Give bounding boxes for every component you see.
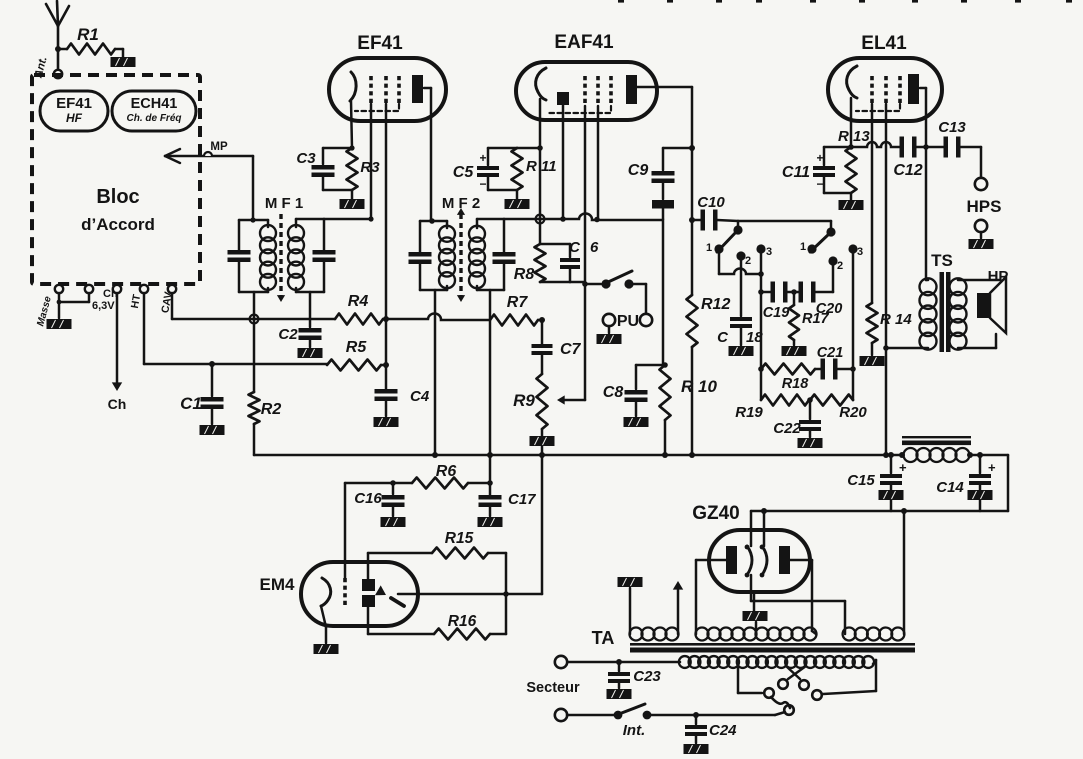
ground below C23: [607, 689, 632, 699]
tube EF41 (HF) inside bloc: [40, 91, 108, 131]
svg-text:R 11: R 11: [526, 158, 557, 175]
TS primary coil: [920, 278, 937, 349]
wire EAF41 g1 to PU switch and R9 wiper: [582, 106, 601, 400]
mains transformer TA label: [592, 628, 615, 648]
ground plate C14: [968, 490, 993, 500]
filter choke core: [902, 436, 971, 445]
svg-text:R8: R8: [514, 266, 535, 283]
resistor R18: [758, 364, 815, 393]
terminal Masse: [35, 283, 63, 328]
GZ40 anode left: [696, 546, 737, 634]
svg-text:R5: R5: [346, 339, 368, 356]
capacitor C8: [603, 365, 663, 416]
svg-text:d’Accord: d’Accord: [81, 215, 155, 234]
terminal CAV: [159, 285, 176, 314]
svg-text:6: 6: [590, 239, 599, 256]
ground below R9: [530, 429, 555, 455]
EAF41 grids: [548, 76, 611, 113]
resistor R1: [55, 25, 115, 55]
svg-text:ECH41: ECH41: [131, 96, 178, 112]
svg-text:GZ40: GZ40: [692, 503, 740, 524]
svg-text:R4: R4: [348, 293, 369, 310]
svg-text:R6: R6: [436, 463, 457, 480]
GZ40 filaments: [745, 511, 845, 634]
svg-text:EL41: EL41: [861, 33, 907, 54]
EL41 grids: [856, 76, 900, 111]
svg-text:R2: R2: [261, 401, 282, 418]
ground below Masse: [47, 319, 72, 329]
wire bankB-2 to C20: [832, 265, 835, 292]
resistor R7: [490, 294, 545, 326]
wire MF2 primary bottom to bus: [434, 290, 437, 455]
tuner block Bloc d'Accord (dashed box): [32, 75, 200, 284]
ground plate C15: [879, 490, 904, 500]
wire R6 left to EM4 grid: [345, 483, 393, 578]
svg-text:C11: C11: [782, 164, 810, 181]
capacitor C12: [893, 137, 945, 180]
svg-text:C21: C21: [817, 345, 844, 361]
EAF41 diode anode: [557, 92, 569, 222]
tube EL41: [828, 33, 942, 121]
svg-text:R18: R18: [782, 376, 810, 392]
terminal HPS ground side: [975, 220, 987, 238]
capacitor C5: [453, 148, 517, 191]
svg-text:HT: HT: [129, 293, 143, 309]
capacitor C9: [628, 145, 695, 219]
svg-text:C13: C13: [938, 119, 966, 136]
svg-text:6,3V: 6,3V: [92, 300, 115, 312]
svg-text:+: +: [899, 460, 907, 475]
resistor R3: [347, 145, 381, 199]
node hop at MF1 drop: [250, 315, 259, 324]
TA secondary mains winding: [567, 656, 874, 668]
tube EF41: [329, 33, 446, 121]
terminal Secteur bottom: [555, 709, 567, 721]
wire MF1 primary bottom to C2: [309, 292, 312, 327]
wire TS secondary to HP: [958, 280, 1000, 348]
svg-text:EM4: EM4: [260, 575, 296, 594]
tube EAF41: [516, 32, 657, 120]
capacitor C1: [180, 361, 223, 424]
svg-text:C12: C12: [893, 162, 922, 179]
switch PU (contacts): [601, 271, 646, 313]
capacitor C15: [847, 452, 907, 511]
wire bankB-3 column: [852, 253, 855, 400]
capacitor C2: [278, 326, 321, 347]
ground below C1: [200, 425, 225, 435]
svg-text:C: C: [717, 329, 729, 346]
wire bankA-2 to C18: [740, 260, 743, 316]
ground below R14: [860, 356, 885, 366]
svg-text:Ch. de Fréq: Ch. de Fréq: [126, 113, 181, 124]
IF transformer MF1 label: [265, 195, 303, 212]
capacitor C4: [375, 388, 430, 416]
svg-text:C7: C7: [560, 341, 582, 358]
svg-text:C2: C2: [278, 326, 298, 343]
wire detector line MF2 to C8/R10: [504, 213, 663, 365]
TS secondary coil: [950, 278, 967, 349]
capacitor C24: [685, 712, 737, 743]
svg-text:C4: C4: [410, 388, 430, 405]
svg-text:Ch: Ch: [108, 396, 127, 412]
svg-text:MP: MP: [210, 141, 228, 153]
MF1 secondary capacitor: [313, 219, 336, 292]
svg-text:R15: R15: [445, 530, 474, 547]
EAF41 cathode: [536, 68, 546, 244]
svg-text:R 13: R 13: [838, 128, 870, 145]
resistor R15: [368, 530, 506, 559]
resistor R19: [735, 395, 809, 422]
svg-text:R7: R7: [507, 294, 529, 311]
svg-text:C22: C22: [773, 420, 801, 437]
svg-text:3: 3: [857, 246, 863, 258]
capacitor C3: [296, 148, 352, 190]
svg-text:R20: R20: [839, 404, 867, 421]
svg-text:+: +: [816, 151, 823, 165]
TA HT winding center tap: [743, 592, 768, 634]
terminal PU right: [617, 313, 652, 330]
wire HT rail to TA filament winding: [903, 511, 906, 634]
capacitor C21: [815, 345, 856, 380]
wire main bus (chassis rail): [254, 424, 902, 458]
terminal Ch 6,3V: [85, 285, 118, 312]
wire bankA-1 jumper: [719, 253, 764, 277]
svg-text:2: 2: [837, 260, 843, 272]
MF1 secondary coil: [288, 219, 324, 292]
svg-text:C8: C8: [603, 384, 624, 401]
svg-text:C14: C14: [936, 479, 964, 496]
svg-text:R 10: R 10: [681, 377, 717, 396]
EF41 grids: [355, 76, 399, 111]
wire Masse to ground: [57, 293, 89, 318]
TA primary winding left: [630, 588, 679, 641]
resistor R14: [867, 303, 913, 355]
svg-text:C19: C19: [763, 305, 790, 321]
capacitor C13: [938, 119, 981, 158]
wire R15/R16 right side: [503, 553, 509, 634]
svg-text:3: 3: [766, 246, 772, 258]
MF1 primary coil: [239, 217, 276, 292]
switch bank B: [800, 227, 863, 272]
wire Ch heater arrow: [108, 293, 127, 412]
wire EL41 grid line to R14: [871, 104, 874, 303]
wire CAV line: [172, 293, 335, 319]
switch bank A: [706, 225, 772, 267]
ground below C18: [729, 346, 754, 356]
capacitor C16: [354, 483, 404, 516]
wire EL41 g3 to bus: [883, 104, 889, 455]
resistor R2: [249, 392, 282, 424]
wire MF2 secondary bottom: [489, 290, 492, 455]
wire band-switch pivots line: [738, 221, 831, 228]
resistor R11: [512, 145, 557, 199]
ground below C8: [624, 417, 649, 427]
ground below HPS: [969, 239, 994, 249]
svg-text:Secteur: Secteur: [526, 680, 580, 696]
ground below R1: [111, 57, 136, 67]
EF41 anode: [412, 75, 431, 220]
wire bankA-3 column: [758, 253, 764, 400]
node MP (arrow into bloc): [165, 141, 253, 163]
switch Int.: [567, 704, 785, 739]
svg-text:−: −: [816, 177, 823, 191]
wire EF41 g2 to R5/C4: [385, 104, 388, 389]
resistor R5: [327, 339, 389, 371]
svg-text:C: C: [569, 239, 581, 256]
ground below C4: [374, 417, 399, 427]
svg-text:C3: C3: [296, 150, 316, 167]
wire EM4 target to bus: [398, 455, 542, 594]
terminal Secteur top: [526, 656, 580, 696]
svg-text:TA: TA: [592, 628, 615, 648]
capacitor C17: [479, 455, 537, 516]
wire TA left winding arrow: [673, 581, 683, 634]
wire EAF41 g2: [597, 106, 600, 219]
ground below R13: [839, 200, 864, 210]
wire EF41 g1: [370, 104, 373, 219]
ground below C24: [684, 744, 709, 754]
svg-text:C17: C17: [508, 491, 536, 508]
antenna Ant.: [32, 1, 69, 80]
ground below R11: [505, 199, 530, 209]
svg-text:EAF41: EAF41: [554, 32, 614, 53]
svg-text:+: +: [479, 151, 486, 165]
ground below R3: [340, 199, 365, 209]
tube GZ40: [692, 503, 810, 592]
wire HT rail: [751, 508, 1008, 514]
svg-text:+: +: [988, 460, 996, 475]
ground above TA left: [618, 577, 643, 587]
TA rectifier filament winding: [843, 628, 905, 641]
MF2 primary capacitor: [409, 221, 432, 290]
resistor R12: [687, 295, 731, 455]
EL41 cathode: [847, 66, 857, 148]
terminal heater Ch: [113, 285, 121, 293]
EM4 grid: [343, 578, 347, 608]
tube ECH41 (Ch. de Freq) inside bloc: [112, 91, 196, 131]
svg-text:PU: PU: [617, 313, 639, 330]
resistor R16: [368, 613, 506, 640]
MF1 core (dashed): [277, 214, 285, 302]
output transformer TS label: [931, 251, 953, 270]
svg-text:R17: R17: [802, 311, 830, 327]
wire HT line: [144, 293, 327, 364]
svg-text:HF: HF: [66, 111, 83, 125]
capacitor C23: [608, 659, 661, 688]
MF2 secondary capacitor: [493, 219, 516, 290]
resistor R9 (volume potentiometer): [513, 374, 585, 429]
wire TS primary bottom: [886, 347, 928, 350]
EL41 anode: [908, 74, 926, 280]
svg-text:1: 1: [800, 241, 806, 253]
tube EM4: [260, 562, 418, 626]
EM4 anodes: [362, 553, 375, 634]
capacitor C10: [689, 194, 738, 231]
capacitor C19: [761, 282, 789, 322]
node hop cathode over detector line: [536, 215, 545, 224]
svg-text:C10: C10: [697, 194, 725, 211]
IF transformer MF2 label: [442, 195, 480, 212]
terminal HT: [129, 285, 148, 310]
svg-text:TS: TS: [931, 251, 953, 270]
terminal HPS: [967, 147, 1002, 216]
capacitor C14: [936, 452, 996, 511]
MF2 secondary coil: [469, 219, 504, 290]
capacitor C18: [717, 317, 763, 346]
svg-text:−: −: [479, 177, 486, 191]
ground below C16: [381, 517, 406, 527]
MF1 primary capacitor: [228, 220, 251, 292]
resistor R20: [807, 395, 867, 422]
resistor R10: [660, 362, 718, 455]
EM4 cathode: [321, 578, 331, 643]
svg-text:C5: C5: [453, 164, 475, 181]
GZ40 anode right: [779, 546, 816, 634]
svg-text:R9: R9: [513, 391, 535, 410]
svg-text:R 14: R 14: [880, 311, 912, 328]
svg-text:Int.: Int.: [623, 722, 646, 739]
wire MP to MF1 primary: [252, 156, 255, 220]
svg-text:R1: R1: [77, 25, 99, 44]
EF41 cathode: [350, 72, 356, 148]
svg-text:R16: R16: [448, 613, 477, 630]
svg-text:C24: C24: [709, 722, 737, 739]
MF2 core (dashed): [457, 208, 465, 302]
svg-text:C23: C23: [633, 668, 661, 685]
svg-text:Bloc: Bloc: [96, 186, 139, 208]
wire cathode node to C12 (hops): [851, 142, 901, 147]
TA core: [630, 643, 915, 653]
capacitor C11: [782, 147, 851, 193]
svg-text:2: 2: [745, 255, 751, 267]
ground below PU: [597, 334, 622, 344]
TA HT winding: [696, 628, 817, 641]
wire AVC to R7 (hop over MF2 drop): [386, 313, 490, 320]
capacitor C7: [532, 320, 582, 374]
svg-text:C16: C16: [354, 490, 382, 507]
EAF41 anode: [626, 75, 692, 295]
ground below R17: [782, 346, 807, 356]
capacitor C6: [540, 239, 599, 282]
svg-text:HPS: HPS: [967, 197, 1002, 216]
TS core: [940, 272, 951, 352]
MF2 primary coil: [420, 218, 455, 290]
ground below EM4: [314, 644, 339, 654]
resistor R6: [390, 463, 493, 489]
wire MF1 bottom to R2: [253, 292, 256, 392]
resistor R17: [789, 292, 830, 345]
terminal PU left: [603, 314, 615, 333]
svg-text:1: 1: [706, 242, 712, 254]
svg-text:R12: R12: [701, 296, 730, 313]
ground below C22: [798, 438, 823, 448]
svg-text:R19: R19: [735, 404, 763, 421]
filter choke winding: [899, 448, 1008, 511]
wire MF1 secondary to EF41 grid: [324, 216, 374, 221]
svg-text:EF41: EF41: [56, 95, 92, 112]
ground below C17: [478, 517, 503, 527]
svg-text:EF41: EF41: [357, 33, 403, 54]
svg-text:M F 1: M F 1: [265, 195, 303, 212]
resistor R4: [335, 293, 389, 325]
wire R1 to ground: [115, 49, 123, 57]
ground below C2: [298, 348, 323, 358]
svg-text:C9: C9: [628, 162, 649, 179]
speaker HP: [977, 268, 1008, 333]
resistor R8: [514, 244, 546, 283]
svg-text:C1: C1: [180, 394, 202, 413]
svg-text:C15: C15: [847, 472, 875, 489]
TA voltage taps: [738, 660, 876, 715]
capacitor C20: [786, 282, 842, 318]
EM4 deflection arrow: [375, 585, 404, 606]
svg-text:HP: HP: [988, 268, 1009, 285]
capacitor C22: [773, 400, 821, 437]
resistor R13: [838, 128, 870, 200]
